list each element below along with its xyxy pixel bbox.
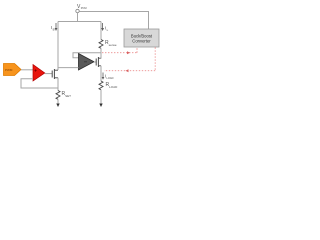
- current arrow ILOAD: [102, 73, 114, 81]
- svg-text:PWM: PWM: [5, 68, 13, 72]
- wire VPCM node down to bus: [77, 13, 79, 21]
- current arrow IB: [51, 23, 57, 32]
- transistor Q1: [52, 69, 58, 79]
- wire op-amp feedback from sense node: [73, 53, 101, 58]
- node VPCM label: [77, 4, 87, 10]
- wire RLOAD to ground: [100, 90, 102, 104]
- wire PWM tag to comparator: [21, 69, 33, 71]
- op-amp U1: [79, 54, 95, 71]
- current arrow IL: [101, 23, 108, 32]
- wire RSENSE to Q2 drain: [100, 48, 102, 58]
- wire comparator lower input loop: [21, 79, 58, 88]
- wire comparator output to Q1 gate: [45, 73, 52, 75]
- svg-text:PCM: PCM: [81, 6, 87, 10]
- label RSENSE: [105, 40, 117, 47]
- resistor RSENSE: [99, 40, 103, 49]
- wire top supply bus: [58, 21, 101, 23]
- svg-text:sense: sense: [109, 43, 117, 47]
- wire Q2 drain up: [100, 58, 102, 59]
- svg-text:SET: SET: [65, 94, 71, 98]
- wire op-amp lower input from left branch: [58, 67, 79, 69]
- feedback dashed return line: [104, 47, 155, 70]
- transistor Q2: [96, 57, 101, 67]
- svg-text:Converter: Converter: [132, 39, 151, 44]
- feedback arrow right: [127, 51, 130, 54]
- comparator U3: [33, 65, 45, 82]
- svg-text:L: L: [107, 28, 109, 32]
- svg-text:LOAD: LOAD: [106, 76, 113, 80]
- label RSET: [62, 91, 72, 98]
- svg-text:LOAD: LOAD: [109, 85, 118, 89]
- wire RSET to ground: [57, 99, 59, 104]
- wire right branch upper: [100, 22, 102, 40]
- svg-text:B: B: [53, 28, 55, 32]
- converter box: [124, 29, 159, 47]
- wire op-amp output to Q2 gate: [94, 61, 96, 63]
- PWM input tag: [4, 64, 22, 76]
- wire Q1 source down: [57, 78, 59, 91]
- wire left branch upper: [57, 22, 59, 71]
- resistor RLOAD: [99, 81, 103, 90]
- ground arrow right: [99, 104, 102, 108]
- resistor RSET: [56, 91, 60, 100]
- wire VPCM node to converter (top): [79, 12, 148, 30]
- wire Q2 source down to RLOAD: [100, 66, 102, 81]
- feedback dashed sense line: [102, 47, 137, 52]
- label RLOAD: [106, 82, 119, 89]
- node VPCM terminal circle: [76, 9, 79, 12]
- feedback arrow left: [126, 69, 129, 72]
- ground arrow left: [56, 104, 59, 108]
